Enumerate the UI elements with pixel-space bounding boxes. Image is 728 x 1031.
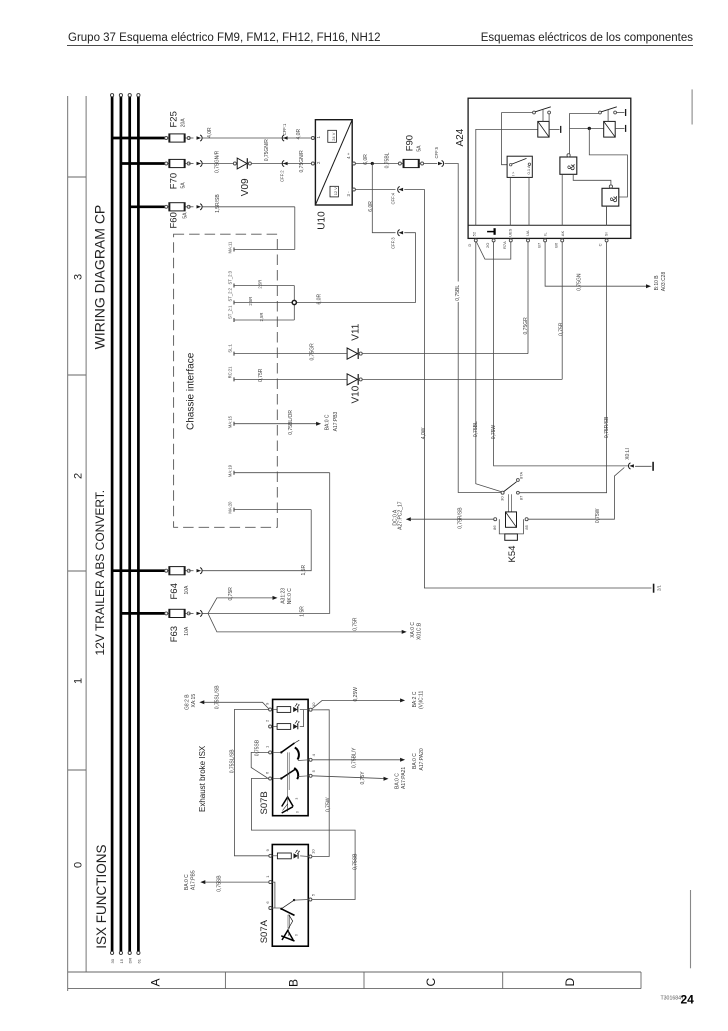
bus bar 15 [120,97,123,951]
A24 internal wire gate1 out to gate2 top [573,174,611,185]
svg-text:XA:15: XA:15 [191,694,197,708]
svg-text:BA:0 C: BA:0 C [395,773,401,789]
wire S07B pin9 to S07A pin9 (0,75SL/SB) [234,710,268,856]
svg-text:Esquemas eléctricos de los com: Esquemas eléctricos de los componentes [481,32,693,44]
S07B pin 10 [309,708,312,711]
svg-text:A31:23: A31:23 [281,588,287,604]
wire F90 to CFF:5 [424,163,438,165]
svg-text:A27:PC2_17: A27:PC2_17 [398,501,404,530]
wire F63 branch to A31:23 [208,598,273,614]
svg-text:2: 2 [73,473,85,479]
connector X0:LI [629,464,634,467]
A24 internal wire junction to gate2 right side [589,128,627,197]
relay K54 housing [499,519,523,534]
S07B lamp row pin9 [273,709,278,711]
svg-text:2,5R: 2,5R [248,297,253,306]
svg-text:X0:LI: X0:LI [625,448,631,460]
connector on F70 output [189,163,194,165]
S07A pin 9 [269,854,272,857]
junction ring ST_2 [292,300,296,304]
svg-text:U10: U10 [317,211,328,230]
diode V10 [347,374,358,385]
wire bus15 to F63 [121,612,166,615]
svg-text:5A: 5A [182,212,188,219]
bottom ruler band [68,971,641,973]
A24 pin C [605,239,608,242]
connector CFF:4 [399,188,404,191]
wire X0:LI to terminal [635,465,651,467]
diode V11 [347,348,358,359]
svg-text:0,75GN: 0,75GN [577,273,583,291]
connector CFF:3 [399,231,404,234]
frame right border top segment [691,89,693,124]
switch unit S07B [273,699,309,815]
svg-text:CFF:1: CFF:1 [282,123,287,135]
svg-text:F90: F90 [405,135,416,151]
svg-text:0: 0 [296,811,300,813]
svg-text:SL:1: SL:1 [228,343,233,352]
A24 internal wire gate1 top to coil row [569,113,571,153]
wire S07A pin1 to BA:0 C arrow (0,75SB) [205,881,269,883]
svg-text:D: D [467,244,472,247]
relay K54 pin 85 [525,518,528,521]
svg-text:2,5R: 2,5R [258,280,263,289]
wire A24 D-R7A link bracket [477,242,511,259]
U10 pin 2 [311,162,314,165]
svg-text:0,75W: 0,75W [595,508,601,523]
A24 pin R7A [509,239,512,242]
wire bus15 to F70 [121,162,166,165]
svg-text:0,75SB: 0,75SB [353,853,359,870]
svg-text:MA:20: MA:20 [228,501,233,514]
svg-text:UES: UES [508,228,513,237]
fuse F60 5A [166,206,189,208]
U10 pin 4 [352,162,355,165]
svg-text:5A: 5A [180,182,186,189]
svg-text:0,75R: 0,75R [558,322,564,336]
bus bar 30 [111,97,114,951]
node MA:11 wire [234,249,295,251]
svg-text:0,75SB: 0,75SB [255,739,261,756]
A24 pin D [474,239,477,242]
node ST_2:1 wire [234,319,294,321]
svg-text:0,75GR: 0,75GR [309,343,315,361]
svg-text:30: 30 [110,958,115,963]
svg-text:MA:19: MA:19 [228,464,233,477]
A24 coil1 right T terminal [549,128,559,130]
svg-text:V10: V10 [350,385,361,403]
S07B switch row pin6 [273,778,281,780]
ST_2 bracket [293,286,295,321]
node ST_2:3 wire [234,285,294,287]
svg-text:MA:15: MA:15 [228,415,233,428]
svg-text:87A: 87A [518,471,523,478]
U10 pin 3 [352,188,355,191]
svg-text:UA: UA [525,230,530,236]
svg-text:4 +: 4 + [346,152,351,159]
svg-text:2/1: 2/1 [656,585,661,591]
S07A pin 5 [309,898,312,901]
svg-text:0: 0 [73,862,85,868]
node ST_2:2 wire [234,302,294,304]
svg-text:30: 30 [499,496,504,501]
wire K54 pin85 to X0:LI (0,75W) [528,468,624,520]
svg-text:A17:PA20: A17:PA20 [419,748,425,770]
header underline [67,45,693,47]
wire V10 to A24 B6 [362,378,562,380]
svg-text:0,75SB: 0,75SB [216,875,222,892]
svg-text:52: 52 [472,231,477,236]
svg-text:4,0R: 4,0R [296,129,302,140]
svg-text:BA:0 C: BA:0 C [412,753,418,769]
A24 internal wire switch2 left [570,112,599,114]
svg-text:AK: AK [560,231,565,237]
wire CFF:5 down to K54 pin30 (0,75BL) [445,164,502,493]
S07B detent cam [282,797,294,807]
connector on F60 output [189,206,194,208]
svg-text:0,75GN/R: 0,75GN/R [299,150,305,173]
S07B mechanism link [287,752,289,790]
ruler tick at 375 [68,374,86,376]
svg-text:B6: B6 [554,242,559,248]
wire V09 to U10 pin2 [251,163,312,165]
svg-text:F25: F25 [169,111,180,127]
svg-text:K54: K54 [507,546,518,563]
relay K54 link [508,494,510,512]
svg-text:0,75SL/SB: 0,75SL/SB [215,685,221,710]
svg-text:85: 85 [524,524,529,529]
svg-text:6,0R: 6,0R [316,294,322,305]
A24 switch2 right T terminal [617,112,625,114]
svg-text:BA:0 C: BA:0 C [184,874,190,890]
svg-text:1,5R/SB: 1,5R/SB [215,194,221,213]
wire S07B pin9 to XA:15 arrow (0,75SL/SB) [204,702,269,708]
svg-text:RC:21: RC:21 [228,366,233,379]
wire A24 pin D down to K54 pin30 (0,75BL) [476,242,502,492]
S07B pin 6 [269,777,272,780]
wire S07B pin10 to S07A pin10 (0,75W) [312,710,329,857]
svg-text:&: & [567,164,578,171]
svg-text:MA:11: MA:11 [228,241,233,253]
A24 ground symbol [487,231,494,233]
fuse F70 5A [166,163,189,165]
svg-text:15: 15 [119,958,124,963]
svg-text:3 -: 3 - [346,191,351,197]
wire A24 pin 2O to connector X0:LI (0,75W) [494,242,629,466]
svg-text:0,75BL/Y: 0,75BL/Y [351,747,357,768]
S07A pin 10 [309,855,312,858]
A24 AND gate 1 [560,157,577,174]
svg-text:24: 24 [681,993,695,1007]
wire A24 pin C to K54 pin87 (0,75R/SB) [519,242,606,493]
svg-text:0,75W: 0,75W [491,425,497,440]
wire busDR to F60 [130,205,167,208]
A24 internal wire switch1 to current sensor box [502,113,508,165]
svg-text:A: A [148,978,162,986]
U10 pin 1 [311,137,314,140]
fuse F64 10A [166,570,189,572]
wire V11 to A24 UA [362,353,528,355]
svg-text:ST_2:1: ST_2:1 [228,305,233,319]
A24 internal wire UA to sensor box [528,177,530,225]
S07A pin 6 [269,907,272,910]
svg-text:20A: 20A [180,118,186,128]
S07B pin 2 [269,725,272,728]
svg-text:B: B [287,979,301,987]
wire F25 to U10 pin1 [203,137,313,139]
switch unit S07A [272,845,308,947]
U10 12V inner box [330,186,338,197]
A24 relay coil 1 [538,121,549,137]
svg-text:10A: 10A [184,585,190,595]
svg-text:CFF:3: CFF:3 [391,237,396,249]
ruler tick 3/2 [68,176,86,178]
fuse F63 10A [166,612,189,614]
svg-text:F60: F60 [169,212,180,228]
A24 internal junction [588,127,591,130]
wire F70 to diode V09 [203,163,234,165]
svg-text:Chassie interface: Chassie interface [186,352,197,430]
connector on F64 output [189,570,194,572]
svg-text:V11: V11 [350,323,361,340]
A24 switch 2 [599,111,602,114]
svg-text:24 V: 24 V [331,132,336,141]
S07A detent cam [282,931,293,941]
A24 AND gate 2 [602,188,619,206]
svg-text:10A: 10A [184,626,190,636]
A24 pin 2O [492,239,495,242]
svg-text:0,75BL: 0,75BL [384,152,390,168]
S07B pin 1 [269,751,272,754]
svg-text:&: & [609,196,620,203]
svg-text:A03:C28: A03:C28 [661,272,667,292]
bus bar DR [128,97,131,951]
svg-text:0,75R: 0,75R [228,587,234,601]
svg-text:1: 1 [73,678,85,684]
ruler tick at 571 [68,570,86,572]
S07A mechanism link [287,915,289,929]
svg-text:G8:2 B: G8:2 B [185,694,191,710]
svg-text:SI: SI [604,232,609,236]
svg-text:0,75GN/R: 0,75GN/R [215,150,221,173]
S07B pin 9 [269,708,272,711]
svg-text:6,0R: 6,0R [368,201,374,212]
svg-text:R7A: R7A [502,241,507,249]
frame left inner ruler line [85,96,87,972]
A24 internal wire gate2 to SI [606,206,608,225]
svg-text:0.1 A: 0.1 A [526,165,531,174]
svg-text:BA:2 C: BA:2 C [412,691,418,707]
connector on F63 output [189,612,194,614]
svg-text:CFF:5: CFF:5 [434,146,439,158]
svg-text:0: 0 [295,934,299,936]
wire F60 to MA:11 riser [203,206,295,208]
wire S07B pin10 to BA:2 C arrow (0,25W) [312,700,401,708]
A24 relay coil 2 [604,121,616,137]
bus bar 61 [137,97,140,951]
wire F63 branch to XA:0 C [208,613,402,632]
svg-text:CFF:4: CFF:4 [391,192,396,204]
svg-text:0,75R/SB: 0,75R/SB [458,507,464,529]
A24 internal coil2 feed row [570,127,604,129]
svg-text:Grupo 37 Esquema eléctrico FM9: Grupo 37 Esquema eléctrico FM9, FM12, FH… [68,32,381,44]
svg-text:Exhaust broke ISX: Exhaust broke ISX [198,745,207,812]
connector CFF:5 [438,162,443,165]
diode V09 [233,162,236,165]
svg-text:ISX FUNCTIONS: ISX FUNCTIONS [94,845,109,949]
wire bus30 to F25 [112,137,166,140]
S07B pin5 stub [298,775,310,778]
dashed box Chassie interface [174,234,278,527]
svg-text:WIRING DIAGRAM CP: WIRING DIAGRAM CP [92,205,108,350]
S07B lamp row pin2 [273,726,278,728]
svg-text:F70: F70 [169,173,180,189]
svg-text:1,5R: 1,5R [300,606,306,617]
svg-text:A17:PB3: A17:PB3 [333,411,339,431]
terminal 2/1 [653,584,655,593]
svg-text:2,5R: 2,5R [259,313,264,322]
fuse F90 5A [400,163,422,165]
svg-text:12V TRAILER ABS CONVERT.: 12V TRAILER ABS CONVERT. [93,490,107,656]
connector on F25 output [189,137,194,139]
wire S07B pin1 to pin6 net (0,75SB) [251,752,268,778]
svg-text:2O: 2O [485,243,490,248]
svg-text:86: 86 [492,525,497,530]
wire A24 pin B6 to diode V10 (0,75R) [561,242,563,380]
S07A pin 1 [269,881,272,884]
svg-text:A17:PA21: A17:PA21 [401,767,407,789]
A24 pin B6 [561,239,564,242]
svg-text:B:10 B: B:10 B [654,275,660,291]
U10 24V inner box [328,130,337,142]
svg-text:(V)IC:11: (V)IC:11 [418,691,424,709]
svg-text:0,75GR: 0,75GR [523,317,529,335]
svg-text:A24: A24 [455,128,466,146]
svg-text:10: 10 [311,849,316,854]
svg-text:0,75R: 0,75R [353,617,359,631]
svg-text:S07B: S07B [259,791,270,814]
A24 coil2 right T terminal [615,127,624,129]
svg-text:87: 87 [518,495,523,500]
svg-text:F64: F64 [169,583,180,599]
wire S07B pin4 to BA:0 C arrow (0,75BL/Y) [312,759,401,761]
S07A lamp row pin9 [272,855,277,857]
wire DC:0 A arrow to K54 pin86 [411,518,494,520]
node MA:19 wire [234,472,330,474]
svg-text:0,75BL: 0,75BL [455,285,461,301]
svg-text:V09: V09 [240,178,251,196]
S07B pin 4 [309,758,312,761]
svg-text:0,75R: 0,75R [258,368,264,382]
svg-text:X01C:B: X01C:B [417,622,423,640]
svg-text:D: D [563,978,577,987]
svg-text:3: 3 [295,798,299,800]
svg-text:0,75SL/SB: 0,75SL/SB [229,749,235,774]
svg-text:BA:0 C: BA:0 C [324,414,330,430]
svg-text:0,75W: 0,75W [326,797,332,812]
wire CFF:3 to ST_2 junction [296,233,415,303]
wire F64 to MA:20 [203,510,312,571]
A24 internal wire pin52 to relay coil 1 [476,129,538,225]
svg-text:3: 3 [73,274,85,280]
svg-text:NK:0 C: NK:0 C [287,588,293,605]
S07A pin5 stub [294,899,309,902]
svg-text:61: 61 [136,958,141,963]
svg-text:12 V: 12 V [333,187,338,196]
wire U10 pin4 branch 6,0R down to CFF:3 [372,164,395,233]
wire CFF:4 down to ground terminal 2/1 (4,0W) [404,190,651,589]
svg-text:F63: F63 [169,626,180,642]
svg-text:XA:0 C: XA:0 C [410,622,416,638]
wire bus30 to F64 [112,569,166,572]
node SL:1 wire to V11 [234,353,347,355]
svg-text:0,75Y: 0,75Y [360,771,366,785]
svg-text:0,75BL: 0,75BL [473,421,479,437]
svg-text:0,25W: 0,25W [353,687,359,702]
A24 current sensor box I> [507,156,532,177]
wire S07B pin5 to BA:0 C arrow (0,75Y) [312,776,384,779]
svg-text:6,0R: 6,0R [363,154,369,165]
A24 pin UA [527,239,530,242]
node MA:15 wire to BA:0 C arrow [234,423,317,425]
svg-text:C: C [597,243,602,246]
svg-text:ST_2:3: ST_2:3 [228,270,233,284]
relay K54 pin 86 [494,518,497,521]
relay K54 contact [501,491,504,494]
S07B pin 5 [309,774,312,777]
S07A pin1 internal link [272,882,275,908]
S07B switch row pin1 [273,751,281,753]
S07B pin4 stub [298,759,309,762]
svg-text:C: C [424,978,438,987]
svg-text:0,75R/SB: 0,75R/SB [604,416,610,438]
wire A24 pin B7 to B:10 B arrow (0,75GN) [545,242,646,286]
svg-text:5A: 5A [416,145,422,152]
wire A24 pin UA to diode V11 (0,75GR) [527,242,529,354]
relay K54 coil [506,512,517,527]
svg-text:0,75BL/OR: 0,75BL/OR [288,410,294,435]
node MA:20 wire [234,509,311,511]
wire F63 branch to MA:19 [208,473,330,614]
svg-text:ST_2:2: ST_2:2 [228,287,233,301]
node RC:21 wire to V10 [234,378,347,380]
A24 internal wire AK to gate1 bottom [561,174,563,225]
svg-text:CFF:2: CFF:2 [279,170,284,182]
svg-text:B7: B7 [536,242,541,248]
svg-text:0,75GN/R: 0,75GN/R [264,139,270,162]
svg-text:I >: I > [510,171,515,176]
ruler tick at 770 [68,769,86,771]
S07A switch row pin6 [272,907,281,909]
A24 pin B7 [544,239,547,242]
dashed box pin ticks [233,248,235,252]
wire S07B pin6 loop to S07A pin5 [251,779,355,900]
frame right border bottom segment [690,890,692,968]
svg-text:1,5R: 1,5R [301,565,307,576]
terminal bar right of X0:LI [652,462,654,471]
wire U10 pin3 to CFF:4 [355,189,395,191]
svg-text:A17:PB5: A17:PB5 [191,870,197,890]
svg-text:4,0R: 4,0R [207,127,213,138]
wire F63 split node [203,612,209,614]
junction node pin4 [371,162,374,165]
connector CFF:2 [283,162,288,165]
wire U10 pin4 to F90 [355,163,398,165]
control unit A24 [468,98,631,238]
frame left outer border [67,96,69,991]
connector CFF:1 [283,136,288,139]
A24 switch 1 [502,112,533,114]
